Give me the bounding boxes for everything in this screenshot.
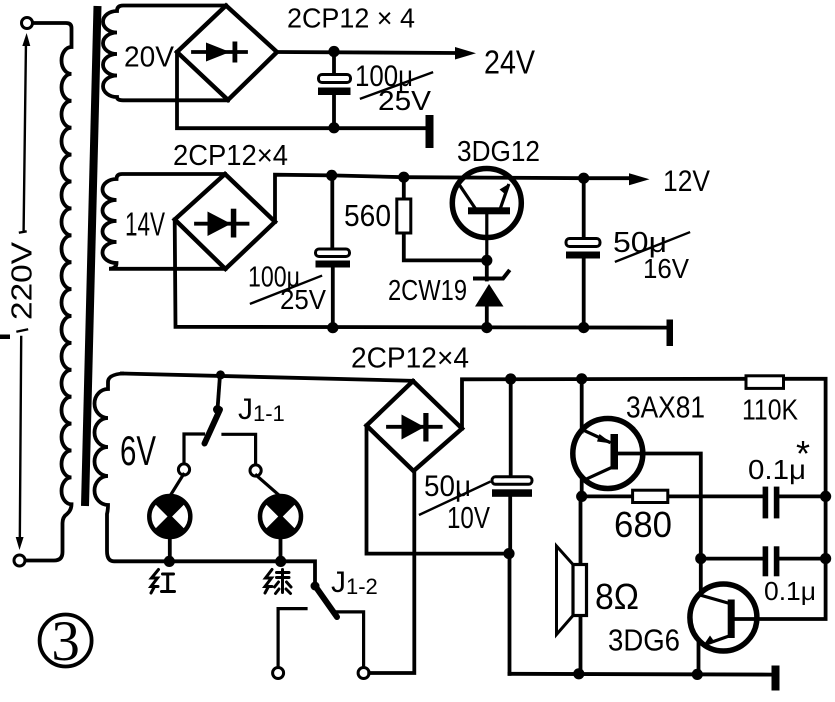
svg-text:24V: 24V	[484, 44, 535, 81]
svg-text:20V: 20V	[124, 42, 175, 74]
svg-text:3DG6: 3DG6	[608, 623, 680, 658]
svg-text:12V: 12V	[663, 165, 710, 198]
svg-text:110K: 110K	[742, 395, 799, 427]
svg-text:2CP12×4: 2CP12×4	[173, 140, 288, 172]
svg-text:3DG12: 3DG12	[457, 136, 540, 168]
svg-text:10V: 10V	[447, 500, 490, 535]
svg-text:3: 3	[51, 610, 80, 673]
svg-text:25V: 25V	[378, 85, 431, 116]
svg-text:*: *	[796, 433, 810, 474]
svg-text:14V: 14V	[125, 206, 165, 243]
svg-text:2CW19: 2CW19	[388, 275, 467, 307]
svg-text:8Ω: 8Ω	[595, 576, 639, 617]
svg-text:0.1μ: 0.1μ	[764, 576, 816, 606]
svg-text:50μ: 50μ	[424, 470, 471, 503]
svg-text:220V: 220V	[7, 241, 39, 320]
svg-text:2CP12×4: 2CP12×4	[351, 343, 469, 375]
svg-text:16V: 16V	[643, 253, 689, 284]
svg-text:3AX81: 3AX81	[626, 390, 705, 425]
svg-text:2CP12 × 4: 2CP12 × 4	[287, 3, 415, 34]
svg-text:6V: 6V	[120, 427, 156, 474]
svg-text:680: 680	[614, 504, 672, 545]
svg-text:560: 560	[344, 198, 391, 233]
svg-text:25V: 25V	[280, 284, 326, 315]
